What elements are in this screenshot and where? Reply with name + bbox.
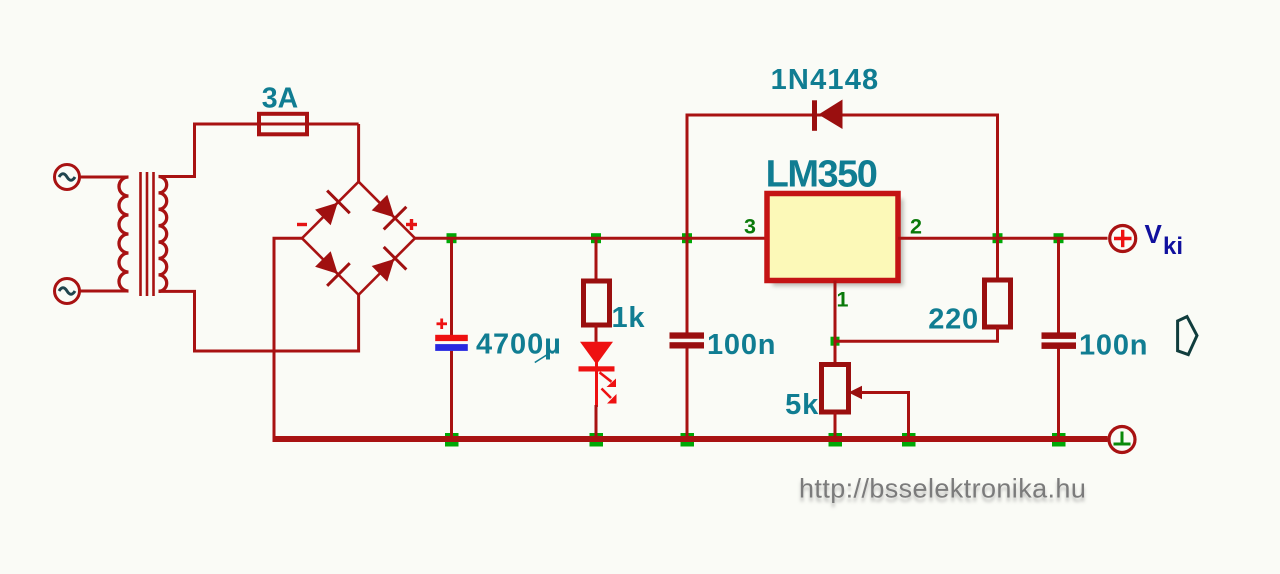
output flag icon — [1178, 317, 1197, 355]
wiper arrow — [849, 386, 863, 399]
node: Vout rail @ 220 / feedback right — [993, 233, 1003, 243]
svg-text:100n: 100n — [1079, 330, 1148, 362]
transformer T1 secondary coil — [159, 177, 167, 292]
node: rail @ C100n-1 / feedback left — [682, 233, 692, 243]
wire: pin2 to output terminal — [898, 237, 1108, 240]
node: gnd @ LED — [590, 433, 604, 447]
wire: pin1 down through adj node — [834, 281, 837, 366]
ground terminal — [1109, 427, 1135, 453]
AC source terminal 2 — [55, 279, 80, 304]
wire: bridge minus to ground rail — [274, 238, 302, 437]
resistor R2 220 — [835, 238, 1011, 341]
node: gnd @ wiper — [902, 433, 916, 447]
capacitor C2 100n — [670, 238, 705, 439]
node: gnd @ C4700 — [445, 433, 459, 447]
regulator U1 LM350 body — [767, 194, 898, 281]
capacitor C1 4700u — [435, 238, 468, 439]
node: adj net @ pin1 — [831, 337, 840, 346]
bridge rectifier diamond — [302, 182, 415, 295]
node: gnd @ C100n-2 — [1052, 433, 1066, 447]
label: bridge minus — [297, 223, 307, 226]
capacitor C3 100n — [1042, 238, 1077, 439]
bridge diode bottom-left — [312, 248, 350, 286]
svg-text:V: V — [1145, 219, 1163, 249]
diode D6 1N4148 — [812, 100, 843, 131]
LED D5 — [579, 325, 617, 439]
node: Vout rail @ C100n-2 — [1054, 233, 1064, 243]
node: gnd @ pot 5k — [829, 433, 843, 447]
node: gnd @ C100n-1 — [681, 433, 695, 447]
node: rail @ C4700 — [447, 233, 457, 243]
svg-text:LM350: LM350 — [766, 154, 877, 196]
output terminal Vki — [1110, 226, 1136, 252]
svg-text:http://bsselektronika.hu: http://bsselektronika.hu — [799, 474, 1086, 504]
junction dots layer (drawn under wires) — [445, 233, 1066, 446]
resistor R1 1k — [584, 238, 610, 325]
wire: ground bus — [273, 436, 1108, 442]
svg-text:220: 220 — [928, 304, 979, 336]
bridge diode top-left — [312, 191, 350, 229]
label: bridge plus — [406, 219, 417, 230]
wire: secondary top to fuse — [159, 124, 359, 177]
svg-text:4700µ: 4700µ — [476, 329, 562, 361]
bridge diode bottom-right — [368, 247, 406, 285]
svg-text:1k: 1k — [612, 302, 646, 334]
potentiometer R3 5k — [822, 365, 909, 440]
wire: AC source 1 to primary — [80, 176, 129, 179]
label pointer line — [535, 354, 549, 363]
label: V ki — [1145, 219, 1184, 260]
svg-text:2: 2 — [910, 215, 922, 239]
LED emission arrow 1 — [600, 372, 612, 381]
bridge diode top-right — [368, 191, 406, 229]
wire: primary bottom to AC source 2 — [80, 290, 129, 293]
AC source terminal 1 — [55, 165, 80, 190]
wire: secondary bottom to bridge bottom vertex — [159, 291, 359, 351]
fuse F1 3A — [259, 114, 307, 135]
transformer T1 core — [141, 172, 154, 296]
regulator U1 LM350 shadow — [773, 199, 904, 286]
svg-text:ki: ki — [1163, 233, 1183, 260]
wire: fuse to bridge top vertex — [357, 124, 360, 182]
node: rail @ R1k — [591, 233, 601, 243]
svg-text:100n: 100n — [707, 329, 776, 361]
wire: main rail bridge+ to LM350 pin3 — [415, 237, 767, 240]
LED emission arrow 2 — [602, 389, 612, 399]
svg-text:5k: 5k — [785, 389, 819, 421]
svg-text:3: 3 — [744, 215, 756, 239]
svg-text:3A: 3A — [262, 83, 298, 115]
transformer T1 primary coil — [119, 177, 129, 291]
svg-text:1: 1 — [837, 288, 849, 312]
wire: feedback loop over LM350 — [687, 115, 998, 238]
svg-text:1N4148: 1N4148 — [771, 64, 880, 96]
